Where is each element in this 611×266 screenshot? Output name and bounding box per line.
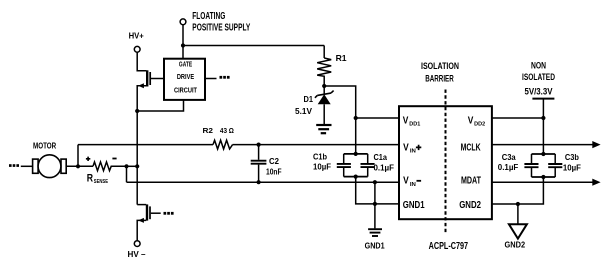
node: GND1 rail junction: [373, 202, 377, 206]
node: R_SENSE - junction: [124, 164, 128, 168]
pin label VDD2: [468, 115, 486, 127]
resistor R1: [317, 46, 347, 87]
supply terminal: non isolated 5V/3.3V: [522, 61, 555, 99]
node: upper MOSFET source junction: [135, 109, 139, 113]
node: VIN- to GND1 tie: [373, 180, 377, 184]
svg-text:NON: NON: [531, 61, 546, 71]
svg-text:MCLK: MCLK: [461, 142, 482, 153]
svg-text:V: V: [403, 176, 409, 187]
svg-text:GND1: GND1: [365, 241, 385, 251]
svg-text:43 Ω: 43 Ω: [220, 126, 234, 135]
svg-text:V: V: [403, 115, 409, 126]
gate drive circuit box U2: [164, 59, 205, 100]
node: C2 top: [257, 143, 261, 147]
svg-text:GND2: GND2: [505, 240, 526, 250]
motor continuation dots: [9, 164, 19, 167]
svg-text:10µF: 10µF: [563, 164, 581, 173]
svg-text:DD2: DD2: [474, 122, 485, 128]
wire: VDD1 lead to IC: [356, 117, 400, 119]
wire to motor: [21, 165, 33, 167]
ground GND1 (earth): [365, 229, 385, 250]
svg-text:C3a: C3a: [502, 153, 517, 162]
transistor Q1 (upper MOSFET): [137, 52, 164, 111]
svg-text:DRIVE: DRIVE: [177, 72, 194, 81]
wire: VIN- rail: [127, 181, 400, 183]
terminal HV-: [128, 241, 146, 259]
wire: 5V rail down: [542, 99, 544, 154]
svg-text:HV –: HV –: [128, 249, 146, 259]
svg-text:HV+: HV+: [129, 30, 144, 40]
svg-text:ISOLATION: ISOLATION: [421, 61, 459, 71]
svg-text:ACPL-C797: ACPL-C797: [429, 241, 469, 252]
wire: C3 bottom to GND2 rail: [492, 177, 544, 204]
svg-text:IN: IN: [410, 149, 416, 155]
svg-text:CIRCUIT: CIRCUIT: [174, 86, 197, 95]
wire: floating supply down to rail: [182, 25, 184, 59]
svg-text:5V/3.3V: 5V/3.3V: [525, 87, 553, 97]
svg-text:BARRIER: BARRIER: [425, 74, 454, 84]
svg-text:C1b: C1b: [313, 152, 327, 161]
svg-text:R2: R2: [203, 126, 214, 135]
svg-text:C1a: C1a: [374, 153, 388, 162]
svg-text:R: R: [87, 173, 93, 185]
terminal HV+: [129, 30, 144, 52]
wire: phase node vertical: [136, 111, 138, 205]
svg-text:C2: C2: [269, 157, 280, 166]
motor M1: [33, 140, 67, 177]
node: C2 bottom: [257, 180, 261, 184]
svg-text:0.1µF: 0.1µF: [374, 164, 395, 173]
svg-text:DD1: DD1: [409, 122, 420, 128]
svg-text:10nF: 10nF: [266, 168, 282, 177]
node: phase/sense junction: [135, 164, 139, 168]
svg-text:V: V: [403, 142, 409, 153]
svg-text:ISOLATED: ISOLATED: [522, 72, 555, 82]
node: R1/D1 junction: [322, 84, 326, 88]
node: C3 top: [541, 152, 545, 156]
isolation amplifier U1 ACPL-C797: [399, 61, 492, 252]
wire: MDAT output with arrow: [492, 179, 601, 186]
terminal: floating positive supply: [180, 11, 250, 34]
svg-text:IN: IN: [410, 182, 416, 188]
svg-text:FLOATING: FLOATING: [192, 11, 225, 22]
svg-text:GATE: GATE: [179, 60, 192, 69]
wire: gate drive box bottom lead to source node: [137, 100, 183, 111]
resistor R_SENSE: [86, 157, 127, 185]
svg-text:POSITIVE SUPPLY: POSITIVE SUPPLY: [192, 23, 250, 34]
wire: C1 bottom to GND1 rail: [356, 177, 400, 204]
transistor Q2 (lower MOSFET): [137, 204, 173, 240]
wire: VIN- down to GND1: [374, 182, 376, 228]
node: C3 bottom: [541, 175, 545, 179]
capacitor pair C1b 10uF / C1a 0.1uF: [313, 152, 394, 176]
pin label VDD1: [403, 115, 421, 127]
node: VDD2 tap: [541, 116, 545, 120]
wire: R1 node to VDD1 vertical: [324, 86, 356, 154]
wire: MCLK output with arrow: [492, 141, 601, 148]
svg-text:V: V: [468, 115, 474, 126]
wire: floating supply rail to R1: [183, 45, 324, 47]
pin label VIN-: [403, 176, 421, 189]
wire: gate drive box right lead with continuation dots: [205, 76, 230, 79]
wire: sense + up to VIN+ rail: [77, 145, 79, 167]
svg-text:MOTOR: MOTOR: [33, 140, 56, 150]
zener diode D1 5.1V: [295, 86, 334, 124]
node: floating supply junction: [181, 43, 185, 47]
node: GND2 rail junction: [516, 202, 520, 206]
wire: motor to sense node: [66, 165, 93, 167]
svg-text:5.1V: 5.1V: [295, 106, 312, 116]
capacitor pair C3a 0.1uF / C3b 10uF: [498, 153, 581, 177]
node: motor / R_SENSE + junction: [76, 164, 80, 168]
wire: VIN+ rail: [78, 144, 400, 146]
svg-text:R1: R1: [336, 53, 347, 63]
ground (earth) below D1: [316, 125, 331, 133]
wire: sense - to phase vertical: [127, 165, 138, 167]
svg-text:0.1µF: 0.1µF: [498, 163, 519, 172]
svg-text:D1: D1: [304, 94, 314, 104]
wire: VDD2 lead: [492, 117, 544, 119]
svg-text:10µF: 10µF: [313, 163, 331, 172]
node: C1 bottom: [354, 175, 358, 179]
svg-text:GND2: GND2: [459, 200, 481, 211]
node: C1 top: [354, 152, 358, 156]
svg-text:GND1: GND1: [403, 200, 425, 211]
svg-text:C3b: C3b: [565, 153, 579, 162]
resistor R2 43 ohm: [203, 126, 234, 149]
svg-text:MDAT: MDAT: [461, 176, 481, 187]
wire: sense - drop to VIN- rail: [126, 166, 128, 182]
svg-text:SENSE: SENSE: [94, 179, 108, 185]
isolation barrier dashed line: [445, 90, 447, 233]
ground GND2 (signal ground triangle): [505, 204, 527, 250]
node: VDD1 tap: [354, 116, 358, 120]
capacitor C2 10nF: [251, 145, 282, 183]
pin label VIN+: [403, 142, 421, 154]
